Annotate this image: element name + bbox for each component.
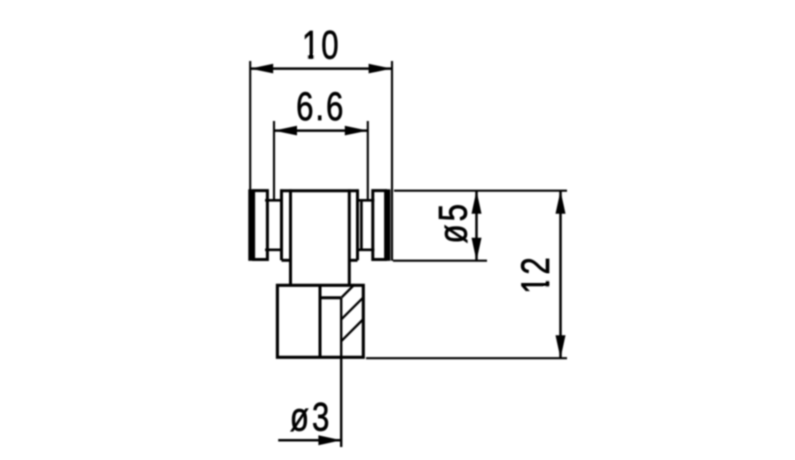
svg-text:6.6: 6.6	[296, 84, 345, 129]
svg-text:ø5: ø5	[431, 201, 476, 244]
svg-text:10: 10	[302, 23, 341, 68]
svg-text:12: 12	[513, 255, 558, 294]
svg-text:ø3: ø3	[290, 395, 333, 440]
